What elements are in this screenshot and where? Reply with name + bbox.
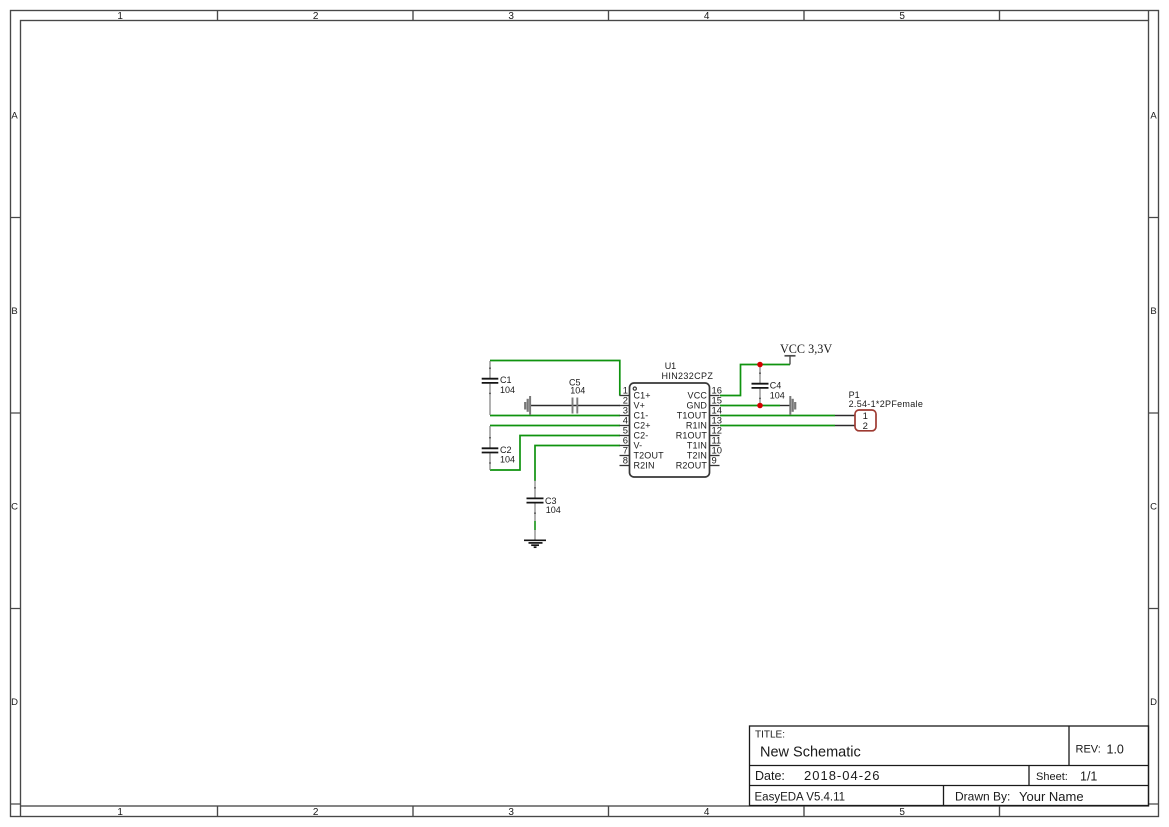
svg-text:TITLE:: TITLE: xyxy=(755,730,785,741)
wire: U1 pin 16 (VCC) to VCC flag xyxy=(720,365,790,396)
svg-text:4: 4 xyxy=(704,11,710,22)
svg-text:8: 8 xyxy=(623,454,628,465)
svg-text:Drawn By:: Drawn By: xyxy=(955,790,1010,804)
junction J1 at C4 top xyxy=(757,362,763,368)
svg-text:D: D xyxy=(11,697,18,708)
wire: U1 pin 13 (R1IN) to P1 pin 2 xyxy=(720,425,835,427)
svg-text:C2-: C2- xyxy=(634,431,649,441)
svg-text:V+: V+ xyxy=(634,401,646,411)
svg-text:104: 104 xyxy=(570,386,585,396)
svg-text:B: B xyxy=(1150,306,1156,317)
svg-text:C2+: C2+ xyxy=(634,421,651,431)
svg-text:R1IN: R1IN xyxy=(686,421,707,431)
svg-text:104: 104 xyxy=(500,385,515,395)
svg-text:5: 5 xyxy=(899,11,905,22)
U1 left pin stubs 1-8 xyxy=(620,396,630,466)
svg-text:REV:: REV: xyxy=(1076,744,1101,756)
svg-text:2.54-1*2PFemale: 2.54-1*2PFemale xyxy=(849,399,924,409)
svg-text:R2OUT: R2OUT xyxy=(676,461,708,471)
wire: GND flag black lead xyxy=(780,405,790,407)
wire: U1 pin 15 (GND) to GND flag xyxy=(720,405,780,407)
svg-text:C4: C4 xyxy=(770,381,782,391)
svg-text:C1+: C1+ xyxy=(634,391,651,401)
svg-text:C2: C2 xyxy=(500,445,512,455)
capacitor C3 xyxy=(527,481,561,540)
wire: U1 pin 6 (V-) to C3 xyxy=(535,446,620,482)
U1 left pin numbers xyxy=(623,384,628,465)
svg-text:2: 2 xyxy=(863,421,868,432)
svg-text:4: 4 xyxy=(704,807,710,818)
svg-text:1: 1 xyxy=(117,807,123,818)
svg-text:1: 1 xyxy=(117,11,123,22)
svg-text:EasyEDA V5.4.11: EasyEDA V5.4.11 xyxy=(755,792,846,804)
svg-text:104: 104 xyxy=(546,505,561,515)
wire: U1 pin 14 (T1OUT) to P1 pin 1 xyxy=(720,415,835,417)
svg-text:HIN232CPZ: HIN232CPZ xyxy=(662,371,714,381)
svg-text:VCC: VCC xyxy=(688,391,708,401)
svg-text:5: 5 xyxy=(899,807,905,818)
svg-text:T1OUT: T1OUT xyxy=(677,411,708,421)
wire C1 top to U1 pin 1 (C1+) xyxy=(490,361,620,396)
wire: C1 bottom to U1 pin 3 (C1-) xyxy=(490,415,620,417)
svg-text:Sheet:: Sheet: xyxy=(1036,771,1068,783)
svg-text:D: D xyxy=(1150,697,1157,708)
wire: C2 bottom to U1 pin 5 (C2-) xyxy=(490,436,620,471)
U1 right pin names xyxy=(676,391,708,471)
svg-text:3: 3 xyxy=(508,807,514,818)
junction J2 at C4 bottom xyxy=(757,403,763,409)
svg-text:C1-: C1- xyxy=(634,411,649,421)
wire: C2 top to U1 pin 4 (C2+) xyxy=(490,425,620,427)
svg-text:T2OUT: T2OUT xyxy=(634,451,665,461)
svg-text:C: C xyxy=(11,502,18,513)
svg-text:2: 2 xyxy=(313,11,319,22)
U1 right pin numbers xyxy=(712,384,722,465)
svg-text:104: 104 xyxy=(770,390,785,400)
svg-text:B: B xyxy=(11,306,17,317)
svg-text:GND: GND xyxy=(687,401,708,411)
ground symbol under C3 xyxy=(524,540,546,547)
svg-text:2: 2 xyxy=(313,807,319,818)
svg-text:C1: C1 xyxy=(500,375,512,385)
svg-text:New Schematic: New Schematic xyxy=(760,745,861,761)
svg-text:T1IN: T1IN xyxy=(687,441,707,451)
GND net flag (left, mirrored, on V+ net) xyxy=(524,396,531,415)
svg-text:T2IN: T2IN xyxy=(687,451,707,461)
IC U1 HIN232CPZ xyxy=(630,361,714,477)
U1 left pin names xyxy=(634,391,665,471)
svg-text:U1: U1 xyxy=(665,361,677,371)
VCC net flag VCC 3,3V xyxy=(780,342,832,365)
title block xyxy=(750,726,1149,806)
svg-text:A: A xyxy=(1150,111,1157,122)
connector P1 xyxy=(835,390,923,432)
svg-text:VCC 3,3V: VCC 3,3V xyxy=(780,342,832,356)
svg-text:9: 9 xyxy=(712,454,717,465)
capacitor C5 xyxy=(569,378,585,414)
svg-text:3: 3 xyxy=(508,11,514,22)
wire: left GND flag through C5 to U1 pin 2 (V+) xyxy=(531,405,620,407)
svg-text:104: 104 xyxy=(500,455,515,465)
capacitor C1 xyxy=(482,361,515,415)
svg-text:R1OUT: R1OUT xyxy=(676,431,708,441)
svg-text:C: C xyxy=(1150,502,1157,513)
capacitor C4 xyxy=(752,365,785,405)
svg-text:V-: V- xyxy=(634,441,643,451)
svg-text:2018-04-26: 2018-04-26 xyxy=(804,768,881,783)
svg-text:1.0: 1.0 xyxy=(1107,743,1124,757)
svg-text:1/1: 1/1 xyxy=(1080,770,1097,784)
svg-text:A: A xyxy=(11,111,18,122)
capacitor C2 xyxy=(482,426,515,470)
svg-text:Your Name: Your Name xyxy=(1019,789,1084,804)
GND net flag (right, on GND net) xyxy=(789,396,796,415)
svg-text:R2IN: R2IN xyxy=(634,461,655,471)
U1 right pin stubs 16-9 xyxy=(710,396,720,466)
svg-text:Date:: Date: xyxy=(755,769,785,783)
